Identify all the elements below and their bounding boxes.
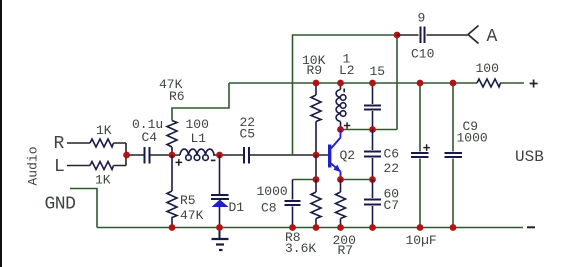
wire base node line: [293, 179, 317, 181]
svg-text:GND: GND: [45, 195, 76, 215]
svg-text:1K: 1K: [96, 123, 112, 138]
svg-text:R7: R7: [338, 243, 354, 258]
wire ground rail: [70, 189, 523, 228]
svg-text:100: 100: [476, 61, 499, 76]
svg-text:10µF: 10µF: [406, 233, 437, 248]
svg-text:L2: L2: [339, 63, 355, 78]
node R5 ground: [169, 224, 176, 231]
svg-text:C10: C10: [411, 47, 434, 62]
node 10uF top: [417, 80, 424, 87]
diode D1 (varicap): [211, 155, 229, 228]
wire V+ rail: [229, 82, 524, 84]
node C9 top: [450, 80, 457, 87]
node 15 bottom: [369, 126, 376, 133]
node C8 ground: [289, 224, 296, 231]
polarity - of L1: [211, 159, 216, 161]
svg-text:C7: C7: [384, 198, 400, 213]
node C9 ground: [450, 224, 457, 231]
inductor L2: [336, 90, 346, 122]
node ground terminal minus: [527, 226, 535, 228]
wire audio line: [126, 150, 328, 160]
border left edge: [0, 0, 2, 267]
svg-text:3.6K: 3.6K: [285, 241, 316, 256]
node divider junction: [313, 176, 320, 183]
svg-text:1000: 1000: [257, 184, 288, 199]
wire L input: [67, 160, 126, 166]
wire R6 to V+ rail: [172, 83, 229, 121]
svg-text:Audio: Audio: [26, 146, 41, 185]
ground symbol: [212, 228, 229, 251]
polarity + of L2: [344, 122, 350, 128]
resistor R8: [311, 180, 321, 228]
wire base to divider: [315, 155, 317, 180]
node junction L1/D1/C5: [216, 152, 223, 159]
svg-text:A: A: [487, 27, 498, 47]
svg-text:L: L: [54, 157, 65, 177]
node D1 ground: [216, 224, 223, 231]
svg-text:D1: D1: [229, 200, 245, 215]
node 15 top: [369, 80, 376, 87]
svg-text:C5: C5: [240, 127, 256, 142]
node R7 ground: [337, 224, 344, 231]
resistor 1K (L input): [90, 162, 114, 170]
svg-text:C6: C6: [384, 147, 400, 162]
capacitor C9: [452, 83, 454, 228]
svg-text:47K: 47K: [180, 208, 204, 223]
capacitor C7: [372, 180, 374, 228]
node R8 ground: [313, 224, 320, 231]
resistor R7: [336, 180, 346, 228]
node V+ terminal: [530, 80, 538, 88]
resistor 100 (V+ feed): [477, 79, 501, 87]
node junction R/L: [123, 152, 130, 159]
svg-text:C4: C4: [142, 130, 158, 145]
capacitor C5: [244, 147, 249, 164]
node R9 top: [313, 80, 320, 87]
svg-text:R6: R6: [169, 89, 185, 104]
svg-text:1000: 1000: [457, 131, 488, 146]
wire R input: [67, 143, 126, 150]
svg-text:USB: USB: [515, 148, 544, 166]
wire emitter line: [341, 179, 373, 181]
svg-text:L1: L1: [191, 131, 207, 146]
node base junction: [313, 152, 320, 159]
wire oscillator box: [293, 35, 398, 155]
svg-text:R: R: [54, 134, 65, 154]
svg-text:1K: 1K: [95, 173, 111, 188]
node 10uF ground: [417, 224, 424, 231]
capacitor C4: [145, 147, 150, 164]
transistor Q2: [328, 130, 341, 180]
wire collector line: [341, 129, 398, 131]
svg-text:100: 100: [186, 117, 209, 132]
antenna A: [468, 26, 479, 44]
node C7 ground: [369, 224, 376, 231]
node collector junction: [337, 126, 344, 133]
polarity + of L1: [176, 159, 183, 166]
resistor R6: [167, 121, 177, 156]
polarity - of L2: [343, 89, 345, 93]
node L2 top: [337, 80, 344, 87]
resistor R9: [311, 83, 321, 155]
svg-text:R9: R9: [307, 63, 323, 78]
node C6 bottom: [369, 176, 376, 183]
svg-text:15: 15: [370, 64, 386, 79]
capacitor C8: [292, 180, 294, 228]
node C10 junction: [394, 32, 401, 39]
resistor 1K (R input): [90, 139, 114, 147]
node emitter junction: [337, 176, 344, 183]
svg-text:C8: C8: [261, 201, 277, 216]
capacitor 10uF electrolytic: [419, 83, 421, 228]
node junction C4/R6/L1/R5: [169, 152, 176, 159]
capacitor 15: [372, 83, 374, 130]
svg-text:22: 22: [384, 161, 400, 176]
resistor R5: [167, 155, 177, 228]
capacitor C6: [372, 130, 374, 180]
svg-text:Q2: Q2: [340, 148, 356, 163]
svg-text:9: 9: [418, 11, 426, 26]
capacitor C10: [397, 34, 468, 36]
svg-text:R5: R5: [180, 193, 196, 208]
inductor L1: [180, 149, 214, 160]
